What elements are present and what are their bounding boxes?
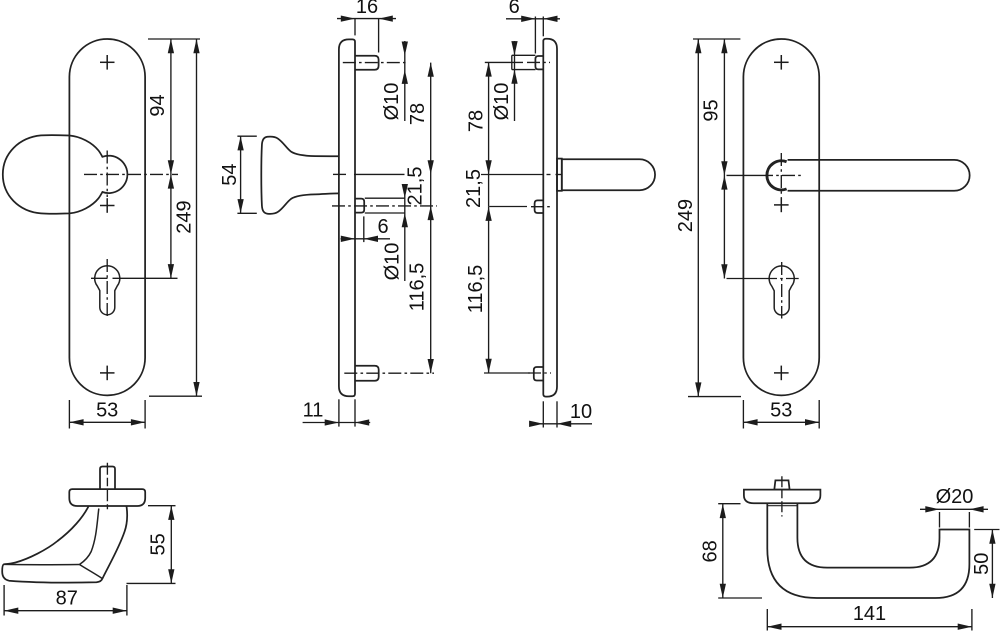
svg-text:Ø10: Ø10 [381, 83, 403, 121]
svg-text:6: 6 [377, 216, 388, 238]
svg-text:116,5: 116,5 [465, 265, 487, 314]
svg-text:10: 10 [570, 401, 592, 423]
svg-text:141: 141 [853, 603, 886, 625]
svg-text:53: 53 [770, 399, 792, 421]
svg-text:78: 78 [407, 103, 429, 125]
svg-text:249: 249 [173, 200, 195, 233]
svg-text:Ø10: Ø10 [381, 243, 403, 281]
svg-text:16: 16 [356, 0, 378, 18]
svg-text:11: 11 [303, 399, 324, 421]
svg-text:50: 50 [971, 553, 993, 575]
svg-text:21,5: 21,5 [404, 167, 426, 206]
svg-text:68: 68 [699, 540, 721, 562]
svg-text:94: 94 [147, 94, 169, 116]
svg-text:95: 95 [701, 99, 723, 121]
svg-text:6: 6 [509, 0, 520, 18]
svg-text:Ø20: Ø20 [936, 486, 974, 508]
svg-text:249: 249 [675, 199, 697, 232]
svg-text:54: 54 [219, 163, 241, 185]
svg-text:55: 55 [147, 533, 169, 555]
svg-text:21,5: 21,5 [463, 169, 485, 208]
svg-text:Ø10: Ø10 [491, 83, 513, 121]
svg-text:78: 78 [465, 110, 487, 132]
svg-text:116,5: 116,5 [407, 263, 429, 312]
svg-text:53: 53 [96, 399, 118, 421]
svg-text:87: 87 [56, 587, 78, 609]
